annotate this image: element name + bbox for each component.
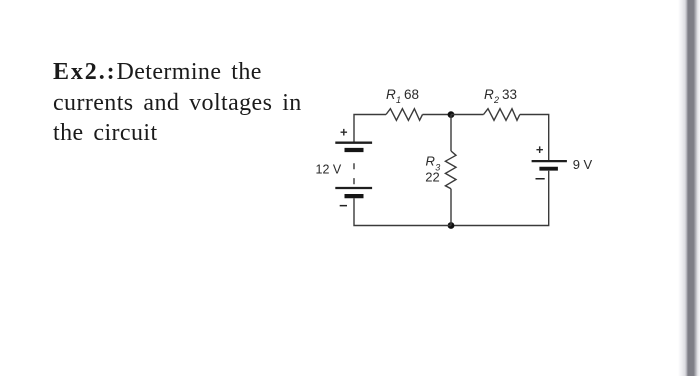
title text	[53, 57, 353, 149]
svg-text:12 V: 12 V	[316, 163, 342, 177]
wire R3 down to node B	[450, 189, 452, 226]
wire node B to bottom-left corner up to 12V - terminal	[354, 198, 451, 225]
resistor R3	[445, 151, 456, 189]
node A junction dot	[448, 111, 455, 118]
wire 9V - terminal to bottom-right corner to node B	[451, 171, 549, 226]
svg-text:68: 68	[404, 87, 419, 102]
svg-text:1: 1	[396, 95, 401, 105]
minus sign of 9V	[536, 178, 545, 180]
node B junction dot	[448, 222, 455, 229]
label R2 33	[484, 87, 517, 105]
label R1 68	[386, 87, 419, 105]
battery 9V	[532, 161, 567, 169]
battery 12V cell 1	[335, 143, 372, 150]
svg-text:2: 2	[493, 95, 499, 105]
wire node A to R2	[451, 114, 484, 116]
wire from 12V + terminal up to top-left corner	[354, 115, 386, 142]
svg-text:9 V: 9 V	[573, 157, 593, 172]
svg-text:R: R	[426, 153, 435, 168]
dashed link between 12V cells	[353, 163, 355, 184]
svg-text:22: 22	[425, 170, 439, 185]
wire R2 to top-right corner down to 9V + terminal	[520, 115, 549, 161]
minus sign of 12V	[340, 205, 347, 207]
wire node A down to R3	[450, 115, 452, 152]
svg-text:R: R	[484, 87, 494, 102]
svg-text:R: R	[386, 87, 396, 102]
right edge scrollbar strip	[678, 0, 700, 376]
resistor R2	[484, 109, 520, 121]
battery 12V cell 2	[335, 188, 372, 196]
wire R1 to node A	[423, 114, 452, 116]
svg-text:+: +	[340, 125, 348, 140]
svg-text:33: 33	[502, 87, 517, 102]
label R3 22	[425, 153, 440, 184]
svg-text:+: +	[536, 142, 544, 157]
resistor R1	[386, 109, 423, 121]
